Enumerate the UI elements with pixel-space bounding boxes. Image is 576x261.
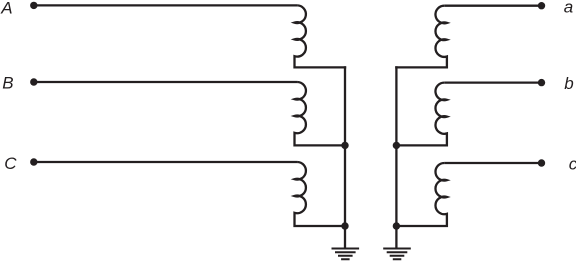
terminal dot C xyxy=(30,158,37,165)
wire c xyxy=(444,162,541,164)
ground (secondary neutral) xyxy=(383,249,411,260)
svg-text:a: a xyxy=(564,0,573,17)
primary neutral bus wire xyxy=(344,66,346,247)
terminal dot A xyxy=(30,2,37,9)
secondary winding b xyxy=(396,83,447,146)
primary winding C xyxy=(295,162,346,226)
junction primary B-neutral xyxy=(341,142,348,149)
terminal dot b xyxy=(538,79,545,86)
junction primary C-neutral xyxy=(341,222,348,229)
svg-text:c: c xyxy=(569,154,576,173)
wire A xyxy=(34,4,297,6)
terminal dot c xyxy=(538,159,545,166)
svg-text:b: b xyxy=(564,74,573,93)
terminal dot B xyxy=(30,78,37,85)
ground (primary neutral) xyxy=(332,249,360,260)
svg-text:B: B xyxy=(2,73,13,92)
secondary winding c xyxy=(396,163,447,226)
secondary winding a xyxy=(395,6,447,68)
junction secondary b-neutral xyxy=(393,142,400,149)
svg-text:A: A xyxy=(0,0,12,17)
junction secondary c-neutral xyxy=(393,222,400,229)
wire C xyxy=(34,161,297,163)
svg-text:C: C xyxy=(4,154,17,173)
primary winding A xyxy=(295,5,347,67)
wire B xyxy=(34,81,297,83)
wire b xyxy=(444,81,541,83)
wire a xyxy=(444,5,541,7)
terminal dot a xyxy=(538,2,545,9)
primary winding B xyxy=(295,82,346,145)
secondary neutral bus wire xyxy=(395,66,397,247)
